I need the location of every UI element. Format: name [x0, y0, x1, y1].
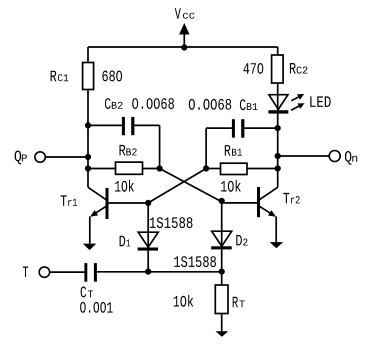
diode D2 triangle	[212, 231, 232, 246]
wire: RT node to RT top	[221, 272, 223, 285]
junction dot Tr2 base node	[219, 198, 225, 204]
value 470	[243, 63, 263, 74]
wire: RB2 right lead	[143, 168, 160, 170]
junction dot Qp node	[85, 154, 91, 160]
junction dot Tr1 base node	[145, 200, 151, 206]
label Rc2	[290, 63, 308, 74]
junction dot Vcc rail	[181, 44, 187, 50]
wire: Rc2 through LED down to CB1 node	[277, 83, 279, 128]
label T input	[23, 267, 28, 278]
diode D2 cathode bar	[211, 246, 232, 249]
wire: CB2 left lead	[88, 124, 122, 126]
Tr2 emitter diagonal with arrow	[259, 206, 276, 217]
value 1S1588 (D1)	[150, 217, 193, 228]
label Rc1	[51, 71, 69, 82]
value 10k (RB1)	[221, 180, 241, 192]
transistor Tr1 (NPN): base bar	[106, 188, 109, 219]
ground (Tr2 emitter)	[270, 242, 284, 248]
junction dot RB1 left node	[203, 165, 209, 171]
wire: CB1 left lead	[206, 127, 232, 129]
power Vcc symbol (arrow up)	[179, 23, 189, 47]
wire: rail to Rc1 top	[87, 47, 89, 63]
label Tr2	[283, 193, 299, 204]
value 0.0068 (left)	[132, 98, 174, 109]
LED emission arrow 1	[291, 94, 304, 101]
label RB1	[225, 145, 242, 156]
capacitor CB2 plates	[122, 117, 134, 135]
diode D1 cathode bar	[138, 248, 158, 251]
diode D1 triangle	[138, 232, 158, 247]
label Tr1	[61, 195, 77, 206]
resistor RB2 body	[116, 162, 143, 174]
junction dot CB1 / right rail	[275, 125, 281, 131]
wire: Qp to left rail	[46, 156, 88, 158]
capacitor CB1 plates	[232, 119, 245, 138]
resistor Rc1 body	[83, 63, 94, 90]
terminal Qp	[35, 152, 45, 162]
Tr1 emitter diagonal with arrow	[90, 206, 107, 217]
terminal T	[39, 267, 49, 277]
LED cathode bar	[268, 110, 288, 113]
wire: Tr2 base node down through D2 to RT node	[221, 202, 223, 272]
LED emission arrow 2	[291, 103, 305, 110]
wire: CB2 right lead	[134, 124, 159, 126]
label LED	[310, 96, 330, 107]
Tr1 base lead	[107, 202, 148, 204]
wire: Vcc top rail	[88, 46, 278, 48]
value 0.001 (CT)	[80, 302, 113, 313]
wire: rail down to Rc2	[277, 47, 279, 55]
value 680	[102, 71, 122, 82]
label CB1	[240, 99, 258, 110]
Tr2 base lead	[222, 202, 259, 204]
label RB2	[120, 145, 137, 156]
junction dot RB2 right node	[157, 165, 163, 171]
junction dot D2 / RT node	[219, 269, 225, 275]
wire: Tr1 emitter down	[89, 217, 91, 244]
wire: right rail to Qn	[278, 155, 330, 157]
LED triangle	[269, 95, 288, 110]
wire: RT bottom to ground	[221, 314, 223, 332]
label Qn	[345, 151, 357, 165]
wire: CB1 down to RB1 left node	[205, 128, 207, 168]
wire: right rail to Tr2 collector corner	[277, 128, 279, 187]
value 10k (RB2)	[115, 180, 134, 192]
value 0.0068 (right)	[189, 99, 231, 110]
wire: cross-coupling diagonal RB2 node to Tr2 base node	[160, 169, 222, 202]
wire: Tr1 base node down through D1 to T line	[147, 203, 149, 272]
label CT	[81, 287, 93, 298]
ground (Tr1 emitter)	[83, 244, 97, 251]
junction dot Qn node	[275, 153, 281, 159]
wire: RB1 right lead	[247, 168, 278, 170]
value 10k (RT)	[174, 295, 194, 307]
label RT	[233, 297, 245, 308]
transistor Tr2 (NPN): base bar	[257, 187, 260, 217]
label D1	[120, 236, 131, 247]
junction dot left rail / CB2	[85, 122, 91, 128]
resistor RT body	[215, 285, 228, 314]
wire: CB1 right lead	[244, 127, 277, 129]
wire: CB2 down to RB2 right node	[159, 125, 161, 168]
junction dot RB1 right / right rail	[275, 165, 281, 171]
wire: cross-coupling diagonal RB1 node to Tr1 base node	[148, 169, 206, 203]
Tr2 collector diagonal	[259, 187, 278, 200]
junction dot RB2 left	[85, 165, 91, 171]
resistor Rc2 body	[272, 55, 284, 83]
capacitor CT plates	[84, 263, 97, 282]
resistor RB1 body	[221, 163, 248, 174]
label D2	[236, 235, 247, 246]
net label Vcc	[175, 8, 195, 19]
wire: RB2 left lead	[88, 168, 116, 170]
wire: CT to RT top node	[97, 271, 222, 273]
junction dot D1 / T line	[145, 269, 151, 275]
label CB2	[105, 98, 123, 109]
wire: RB1 left lead	[206, 168, 220, 170]
wire: T terminal to CT	[50, 271, 84, 273]
label Qp	[15, 151, 27, 165]
wire: left rail Rc1 bottom to Tr1 collector corner	[87, 90, 89, 188]
Tr1 collector diagonal	[88, 187, 107, 200]
wire: Tr2 emitter down	[275, 217, 277, 243]
ground (RT)	[216, 331, 229, 337]
value 1S1588 (D2)	[174, 256, 216, 267]
terminal Qn	[329, 151, 340, 162]
